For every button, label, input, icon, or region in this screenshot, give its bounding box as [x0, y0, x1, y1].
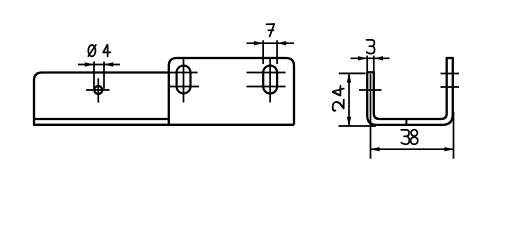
- dimension D4 text: [88, 45, 110, 57]
- slot right: [263, 66, 277, 94]
- dimension 7 text: [266, 24, 274, 36]
- side hole centerline cross: [359, 74, 382, 159]
- front view right plate outline: [169, 58, 294, 125]
- dimension 7 arrows: [254, 41, 286, 45]
- dimension 38 text: [401, 130, 418, 145]
- dimension 24 text: [333, 85, 344, 111]
- slot left centerlines: [169, 57, 199, 103]
- side view bottom inner: [379, 118, 441, 120]
- slot left: [177, 66, 191, 94]
- dimension 24: [339, 73, 377, 126]
- side view left wall outer: [367, 72, 377, 125]
- dimension 38 arrows: [370, 147, 453, 151]
- front view left plate outline: [34, 73, 169, 125]
- dimension 7: [247, 40, 295, 64]
- dimension 38: [370, 112, 453, 159]
- dimension 24 arrows: [347, 73, 351, 126]
- side view right wall inner: [441, 58, 447, 119]
- side view left wall inner: [374, 72, 380, 119]
- dimension 3 arrows: [358, 56, 383, 60]
- dimension 3: [351, 56, 390, 72]
- dimension 3 text: [367, 40, 375, 54]
- side view bottom outer: [377, 124, 443, 126]
- side view right wall outer: [442, 58, 453, 125]
- slot right centerlines: [247, 58, 286, 103]
- front view bend line: [35, 118, 169, 120]
- dimension D4: [78, 62, 120, 89]
- side slot centerlines: [441, 74, 460, 88]
- hole D4: [94, 86, 102, 94]
- hole centerlines: [86, 78, 110, 102]
- front view bottom edge: [33, 124, 294, 126]
- side view right wall top cap: [446, 57, 454, 59]
- dimension D4 arrows: [85, 62, 113, 66]
- side view left wall top cap: [366, 71, 375, 73]
- side view bottom center tick: [405, 119, 407, 125]
